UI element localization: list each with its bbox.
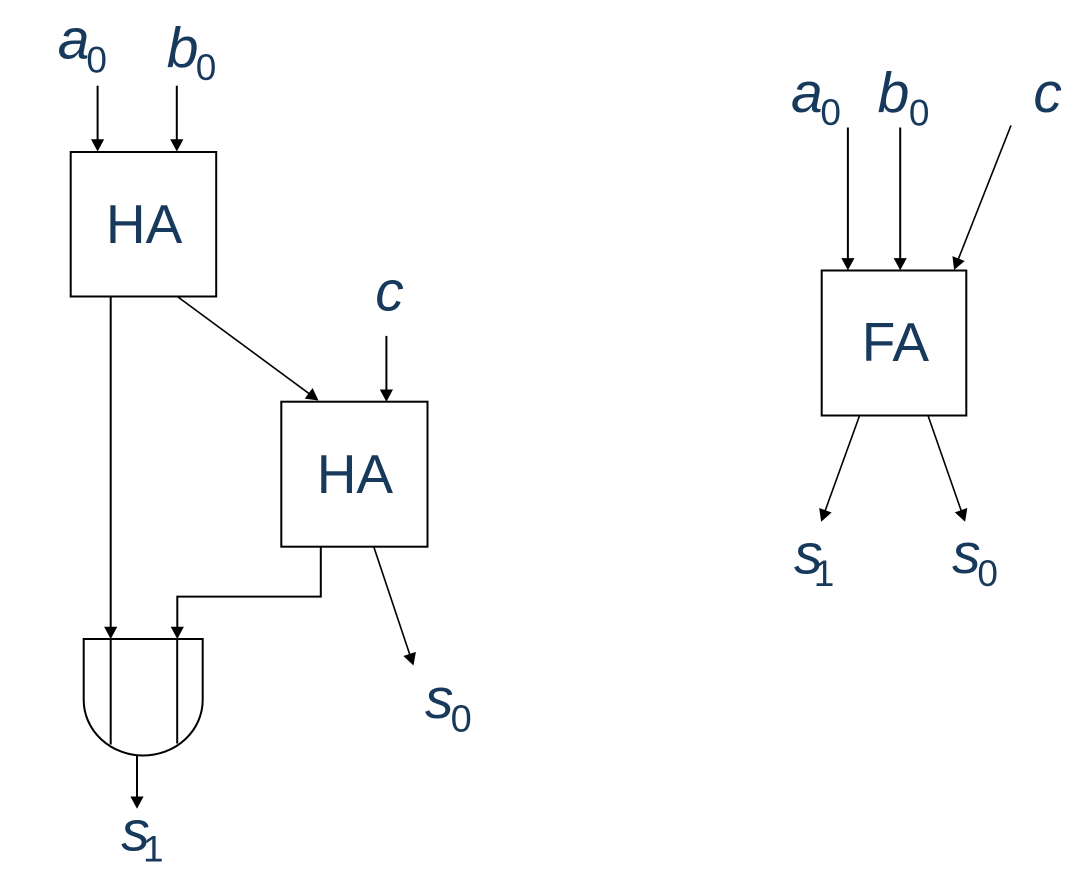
svg-text:HA: HA [106,193,183,255]
svg-text:b: b [878,61,910,125]
svg-text:1: 1 [143,829,164,870]
svg-text:HA: HA [317,443,394,505]
svg-text:b: b [167,16,199,80]
svg-text:s: s [425,667,454,731]
svg-text:c: c [1033,61,1062,125]
svg-text:0: 0 [86,39,107,80]
svg-text:0: 0 [820,92,841,133]
svg-text:0: 0 [196,47,217,88]
svg-text:c: c [375,259,404,323]
svg-text:a: a [58,8,90,72]
svg-text:s: s [952,522,981,586]
svg-text:0: 0 [977,553,998,594]
svg-text:0: 0 [909,92,930,133]
svg-text:a: a [791,61,823,125]
svg-text:0: 0 [451,699,472,741]
svg-text:FA: FA [862,311,930,373]
svg-text:1: 1 [814,553,835,594]
